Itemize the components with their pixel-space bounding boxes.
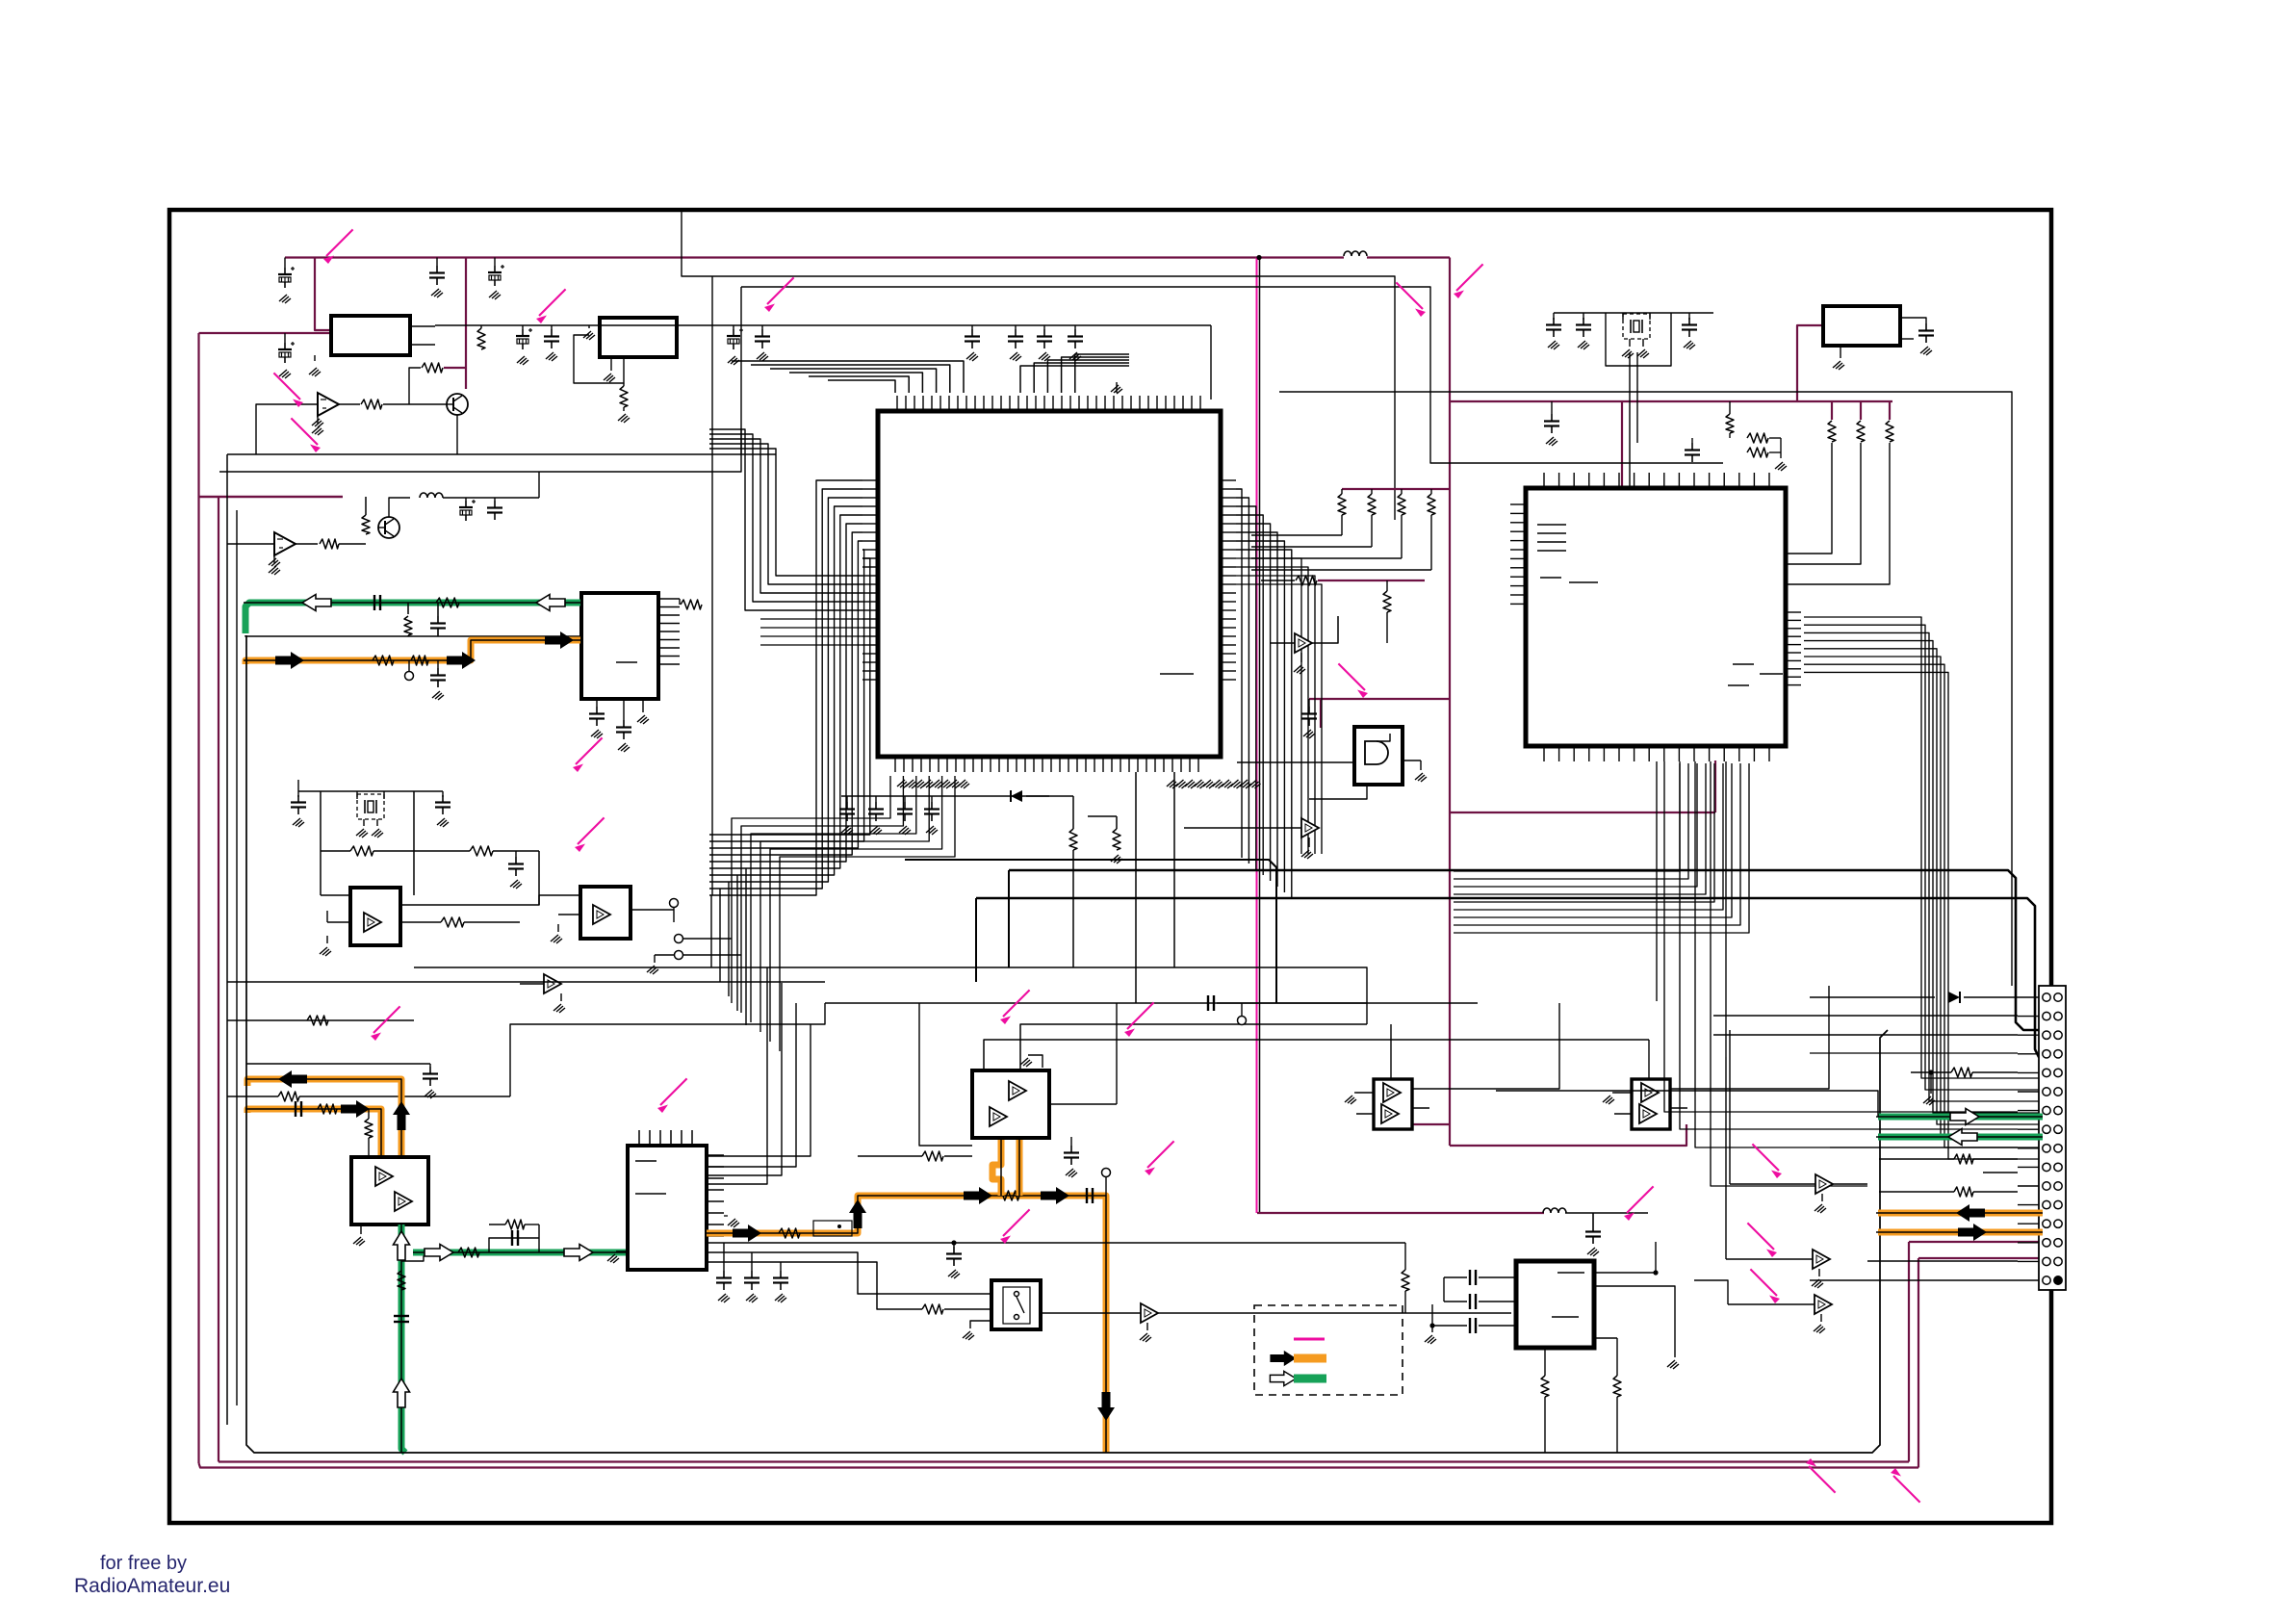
resistor mid2b — [1296, 576, 1317, 585]
relay driver U12 tri2 — [1639, 1104, 1657, 1123]
resistor U6 to opamp — [922, 1151, 943, 1161]
ground B2 — [557, 924, 559, 932]
wire B1 in2 — [327, 921, 350, 923]
wire B2 link — [400, 895, 580, 905]
svg-text:for free by: for free by — [100, 1553, 187, 1574]
wire purple left inner vertical — [218, 497, 219, 1462]
wire purple y516 — [199, 496, 344, 498]
crystal X2 ground — [1629, 339, 1631, 347]
box B feedback — [574, 335, 624, 383]
wire buffer R1 out — [1833, 1183, 1867, 1185]
wire U7 netrt — [1049, 1103, 1117, 1105]
U7 op-amp 2 — [990, 1107, 1007, 1126]
wire resistor to IC2 pin 3 — [1786, 443, 1890, 584]
green conn arrow1 — [1950, 1109, 1979, 1125]
resistor orange m2 — [998, 1191, 1019, 1200]
green up arrow 1 — [394, 1231, 410, 1260]
resistor u1 bot1 — [1069, 829, 1077, 850]
wire U7 box left — [919, 1003, 972, 1146]
wire B1 in — [321, 894, 350, 896]
wire purple and-gate rail — [1309, 698, 1450, 700]
green open arrow 1 — [302, 595, 331, 611]
capacitor xtal left — [291, 795, 306, 814]
wire y407 long — [1279, 392, 2012, 986]
resistor mid2 v — [1383, 591, 1391, 612]
annotation arrow 16 — [1624, 1186, 1654, 1221]
ground rail1 — [279, 295, 291, 303]
box C lower pin — [1900, 338, 1914, 340]
capacitor pcap r3 — [727, 328, 743, 349]
green conn arrow2 — [1948, 1129, 1977, 1146]
wire purple resistor feed 1 — [1831, 401, 1833, 420]
capacitor U7 right — [1064, 1146, 1079, 1165]
U13 dash — [1557, 1272, 1584, 1274]
bus U1 right verticals — [1236, 489, 1242, 858]
signal green mic path — [401, 1224, 405, 1453]
wire purple resistor feed 2 — [1860, 401, 1862, 420]
ground row U1 bottom-right — [1167, 780, 1178, 788]
U3 internal dash — [616, 661, 637, 663]
connector pin filled — [2054, 1276, 2063, 1285]
signal green to U6 — [413, 1250, 629, 1256]
connector J1 body — [2039, 986, 2066, 1290]
capacitor r6 — [1008, 329, 1023, 348]
resistor orange m1 — [779, 1228, 800, 1238]
U1 left lower pin wires — [760, 618, 862, 620]
ground buffer R1 — [1821, 1194, 1823, 1201]
U1 left pins — [862, 479, 878, 481]
IC U13 reg — [1516, 1261, 1594, 1348]
signal green conn2 — [1878, 1134, 2043, 1141]
legend magenta sample — [1294, 1338, 1325, 1341]
IC U1 main processor — [878, 411, 1221, 757]
resistor pull row 3 — [1398, 494, 1405, 515]
wire purple boxC feed — [1797, 325, 1823, 401]
wire diode feed2 — [1964, 996, 2018, 998]
wire X2 rail — [1554, 312, 1713, 314]
resistor conn2 — [1954, 1154, 1973, 1164]
resistor lad2 — [278, 1092, 299, 1101]
capacitor r5 — [965, 329, 980, 348]
ground r4 — [757, 352, 768, 361]
resistor lad1 — [307, 1016, 328, 1025]
wire purple bottom mid — [1257, 1212, 1544, 1214]
annotation arrow 12 — [1145, 1141, 1174, 1175]
ground op-amp A2 — [269, 566, 280, 575]
U1 left harness — [709, 480, 862, 895]
wire vertical x740 — [711, 276, 713, 895]
capacitor xtal right — [435, 795, 450, 814]
ground relay driver U12 — [1603, 1096, 1614, 1104]
annotation arrow 4 — [1454, 264, 1483, 298]
buffer U5 — [544, 974, 561, 993]
annotation arrow 7 — [573, 737, 603, 772]
U4 op-amp 2 — [395, 1192, 412, 1211]
ground row U1 bottom-left — [897, 780, 909, 788]
wire xtal left v — [320, 791, 322, 895]
U6 right harness — [707, 1024, 811, 1156]
wire res mid2 out — [1318, 580, 1425, 581]
resistor rail drop — [477, 328, 485, 349]
U2 internal label dashes — [1537, 524, 1566, 526]
U1 top harness left — [828, 380, 895, 393]
resistor opamp A1 out — [361, 400, 382, 409]
capacitor and-gate area — [1301, 707, 1317, 726]
switch box SW1 — [991, 1280, 1041, 1329]
buffer R3 — [1815, 1295, 1832, 1314]
capacitor U1b3 — [897, 802, 913, 821]
wire mid v1 — [538, 851, 540, 905]
resistor orange2 — [318, 1104, 337, 1114]
wire purple res drop v — [1714, 760, 1716, 812]
signal orange opF — [992, 1137, 1001, 1196]
crystal X1 grounds — [363, 819, 365, 826]
wire U13 bottom — [1544, 1397, 1546, 1453]
crystal X1 — [357, 794, 384, 819]
wire res2 to Q2 — [339, 543, 366, 545]
ground U1 top — [1111, 385, 1122, 394]
orange down arrow m — [1097, 1392, 1115, 1421]
relay driver U11 tri1 — [1383, 1083, 1401, 1102]
switch SW1 internal — [1003, 1287, 1030, 1324]
crystal X2 — [1623, 314, 1650, 339]
op-amp A2 — [274, 532, 296, 555]
regulator box A — [331, 316, 410, 355]
annotation arrow 1 — [323, 229, 353, 264]
box C out wire — [1900, 318, 1926, 323]
wire X2 down — [1629, 352, 1631, 488]
wire purple mid-left — [199, 496, 344, 498]
signal orange out1 — [247, 1079, 401, 1157]
resistor conn — [1951, 1068, 1972, 1077]
wire purple inner to connector — [1909, 1241, 2043, 1243]
wire long y1042 — [825, 1002, 919, 1004]
resistor sw3 — [1402, 1270, 1409, 1291]
annotation arrow 6 — [291, 418, 321, 452]
ground aboveU2 — [1775, 462, 1787, 471]
legend orange sample — [1294, 1354, 1326, 1363]
U1 right lower bundle — [1236, 558, 1301, 854]
wire resistor to IC2 pin 2 — [1786, 443, 1861, 564]
resistor Q2 base pull — [362, 515, 370, 534]
annotation arrow 18 — [1747, 1223, 1777, 1257]
resistor green v — [398, 1271, 405, 1290]
capacitor X2 r — [1682, 318, 1697, 337]
wire rail drop IC1 — [1210, 325, 1212, 400]
annotation arrow 3 — [764, 277, 794, 312]
U1 harness drop to mid — [710, 895, 712, 967]
wire purple bottom inner — [219, 1460, 1909, 1462]
ground boxA left cap — [279, 370, 291, 378]
connector stub wires — [2018, 996, 2039, 998]
resistor opamp A2 out — [320, 539, 339, 549]
ground U5 — [553, 1004, 565, 1013]
capacitor r2 — [544, 329, 559, 348]
ground buffer R2 — [1818, 1269, 1820, 1276]
resistor aboveU2 — [1726, 414, 1734, 433]
resistor box B fb — [620, 386, 628, 407]
wire purple outer to connector — [1918, 1257, 2043, 1259]
wire opamp A1 in — [256, 404, 296, 454]
capacitor X2 l2 — [1576, 318, 1591, 337]
ground and-gate cap — [1303, 730, 1315, 738]
resistor pull row 2 — [1368, 494, 1376, 515]
orange arrow m1 — [733, 1224, 761, 1242]
U2 bottom pins — [1543, 746, 1545, 761]
resistor SW1 — [922, 1304, 943, 1314]
orange conn arrow1 — [1956, 1204, 1985, 1222]
box C ground — [1840, 346, 1841, 358]
wire U7 top1 — [984, 1040, 1136, 1070]
box A right pins — [410, 325, 435, 327]
wire B2 out — [631, 909, 674, 911]
resistor R-pull2 — [1857, 421, 1865, 442]
capacitor U1b4 — [924, 802, 940, 821]
wire U9 net — [1312, 616, 1338, 643]
green cap gap v — [394, 1316, 409, 1322]
wire U7 top2 — [1020, 1024, 1367, 1070]
orange arrow 3 — [545, 632, 574, 649]
capacitor green sub — [430, 616, 446, 635]
AND gate U8 — [1365, 741, 1388, 764]
ground tp — [654, 955, 656, 963]
op-amp box U4 — [351, 1157, 428, 1224]
capacitor U3 bot1 — [596, 699, 598, 707]
wire purple res link — [444, 367, 466, 369]
ground U4 — [360, 1224, 362, 1234]
ground r6 — [1010, 352, 1021, 361]
wire after ind — [443, 497, 539, 499]
capacitor pcap r1 — [516, 328, 532, 349]
capacitor box C out — [1918, 323, 1934, 343]
ground u1 bot2 — [1111, 855, 1122, 864]
wire opamp A2 out — [296, 543, 318, 545]
resistor orange v — [365, 1119, 373, 1138]
capacitor r8 — [1068, 329, 1083, 348]
ground U9 — [1300, 653, 1302, 662]
ground box B fb — [618, 414, 630, 423]
wire y1020 long — [227, 981, 825, 983]
signal green RX path — [245, 603, 580, 633]
U2 right pins — [1786, 611, 1801, 613]
wire purple vertical mid — [1449, 258, 1451, 1147]
wire conn r3 — [1713, 1034, 2018, 1036]
wire purple rail 417 — [1450, 400, 1892, 402]
ground relay driver U11 — [1345, 1096, 1356, 1104]
wire buffer R2 net — [1725, 1057, 1727, 1259]
wire SW1 left1 — [707, 1252, 991, 1294]
legend green sample — [1294, 1375, 1326, 1383]
wire X2 frame — [1606, 313, 1671, 366]
wire vertical x1307 black — [1259, 258, 1261, 1214]
op-amp A1 — [318, 393, 339, 416]
ground B1 — [326, 936, 328, 943]
wire res row links — [1251, 534, 1342, 536]
transistor Q1 — [447, 394, 468, 415]
annotation arrow corner1 — [1806, 1458, 1836, 1493]
U6 internal dash — [635, 1160, 656, 1162]
AND gate box U8 — [1354, 727, 1403, 785]
inductor Q2 out — [420, 493, 443, 498]
svg-text:RadioAmateur.eu: RadioAmateur.eu — [74, 1575, 230, 1597]
wire long y472 — [227, 453, 776, 455]
testpoint below orange — [408, 660, 410, 671]
green open arrow 2 — [536, 595, 565, 611]
diode D1 u1 bottom — [1011, 790, 1022, 802]
relay driver U12 pins — [1614, 1092, 1632, 1094]
wire purple driver1 link — [1408, 1123, 1450, 1125]
signal orange out2 — [247, 1109, 381, 1157]
U1 left harness upper — [709, 449, 862, 576]
legend green arrow — [1270, 1371, 1296, 1385]
wire purple into box A — [199, 332, 332, 334]
ground U3 bot3 — [642, 699, 644, 712]
wire left net3 — [227, 1096, 278, 1097]
ground boxB in — [583, 331, 595, 340]
ground r5 — [966, 352, 978, 361]
buffer B1 triangle — [364, 913, 381, 932]
wire green sub bus — [245, 635, 501, 636]
buffer B2 triangle — [593, 905, 610, 924]
wire SW1 left2 — [944, 1308, 991, 1310]
connector J1 pins — [2043, 993, 2050, 1001]
wire purple right inner rise — [1908, 1242, 1910, 1462]
testpoint orange — [1102, 1169, 1111, 1177]
signal green conn1 — [1878, 1114, 2043, 1121]
annotation arrow 11 — [1124, 1002, 1154, 1037]
capacitor below orange — [437, 660, 439, 668]
wire conn r2 — [1713, 1015, 2018, 1017]
wire U13 caps left — [1443, 1277, 1445, 1302]
resistor fb — [422, 363, 443, 373]
U7 op-amp 1 — [1009, 1081, 1026, 1100]
wire U13 top right — [1594, 1286, 1675, 1357]
wire vertical x1307 magenta — [1256, 258, 1258, 1214]
annotation arrow 2 — [536, 289, 566, 323]
ground rail3 — [489, 291, 501, 299]
wire U13 right1 — [1594, 1242, 1656, 1273]
wire main 5V rail — [435, 324, 1211, 326]
resistor on orange 1 — [373, 656, 394, 665]
wire purple left outer vertical — [197, 333, 199, 1463]
orange arrow m3 — [1041, 1187, 1069, 1204]
ground box A — [309, 368, 321, 376]
wire left net2 — [246, 1063, 404, 1065]
IC U2 controller — [1526, 488, 1786, 746]
buffer R2 — [1813, 1250, 1830, 1269]
box B ground lead — [610, 357, 612, 371]
wire u1 bottom bus down2 — [1173, 772, 1175, 967]
resistor aboveU2 h1 — [1747, 433, 1768, 443]
inductor on bottom mid wire — [1543, 1208, 1566, 1213]
capacitor green par — [512, 1230, 518, 1246]
wire y1005 long — [414, 967, 1367, 1024]
bus U2 bottom verticals — [1664, 761, 2018, 1112]
U1 internal dash — [1160, 673, 1194, 675]
orange arrow 2 — [447, 652, 476, 669]
wire green bus to U3 — [501, 635, 581, 637]
resistor U13 b1 — [1541, 1376, 1549, 1397]
wire SW1 right — [1041, 1312, 1511, 1314]
annotation arrow 9 — [1338, 663, 1368, 698]
U1 bottom pins — [894, 757, 896, 772]
wire conn green feeds — [1496, 1091, 1878, 1117]
legend orange arrow — [1270, 1351, 1296, 1366]
U1 top pins — [896, 396, 898, 411]
bus heavy left drop — [1008, 870, 1010, 967]
wire left black v236 — [226, 454, 228, 1425]
capacitor pcap boxA left — [278, 342, 295, 363]
wire U8 bottom — [1309, 785, 1367, 799]
annotation arrow corner2 — [1891, 1468, 1920, 1503]
wire green parallel — [489, 1238, 539, 1252]
wire purple bottom outer — [199, 1463, 1919, 1468]
wire u1 bottom bus down — [1135, 772, 1137, 1003]
ground buffer R3 — [1820, 1314, 1822, 1322]
ground SW buf — [1146, 1323, 1148, 1330]
wire buffer R3 net — [1694, 1280, 1728, 1304]
ground U13 capleft — [1431, 1326, 1433, 1332]
wire res mid2 — [1261, 580, 1295, 581]
wire A2 input net — [227, 543, 253, 545]
U6 right pins — [707, 1154, 724, 1156]
capacitor r4 — [755, 329, 770, 348]
bus heavy line 1 — [1009, 870, 2043, 1030]
annotation arrow 10 — [1000, 990, 1030, 1024]
wire bottom return — [246, 635, 1888, 1453]
orange arrow m2 — [964, 1187, 992, 1204]
resistor on orange 2 — [411, 656, 428, 665]
resistor mid2 — [470, 846, 493, 856]
wire purple transistor drop — [465, 258, 467, 390]
U6 bottom caps — [716, 1271, 732, 1290]
signal orange opF2 — [1017, 1137, 1023, 1196]
orange arrow 1 — [275, 652, 304, 669]
annotation arrow 5 — [273, 373, 303, 407]
resistor U13 b2 — [1613, 1376, 1621, 1397]
wire purple ic2 right drop — [1450, 812, 1715, 813]
U1 top harness right — [1020, 366, 1129, 393]
capacitor mid2 — [508, 857, 524, 876]
U2 left pins — [1510, 503, 1526, 505]
ground conn — [1930, 1072, 1932, 1094]
regulator box C — [1823, 306, 1900, 346]
wire net sw2 — [707, 1242, 1405, 1244]
testpoint F — [1238, 1017, 1247, 1025]
IC U6 audio — [628, 1146, 707, 1270]
wire purple right outer rise — [1918, 1258, 1919, 1468]
wire diode net — [1026, 795, 1073, 797]
resistor pull row 1 — [1338, 494, 1346, 515]
U6 top pins — [638, 1130, 640, 1146]
ground U7 left — [1028, 1055, 1043, 1068]
wire U10 in — [1184, 827, 1276, 829]
transistor Q2 — [378, 517, 399, 538]
wire buffer R1 net — [1729, 1030, 1731, 1184]
annotation arrow 13 — [1000, 1209, 1030, 1244]
U2 top pins — [1543, 473, 1545, 488]
capacitor r7 — [1037, 329, 1052, 348]
buffer box B2 — [580, 887, 631, 939]
resistor green sub — [404, 616, 412, 635]
resistor u1 bot2 — [1113, 829, 1120, 850]
capacitor X2 l1 — [1546, 318, 1561, 337]
op-amp box U7 — [972, 1070, 1049, 1138]
legend dashed box — [1254, 1305, 1403, 1395]
relay driver U12 — [1632, 1079, 1670, 1129]
orange arrow right2 — [341, 1100, 370, 1118]
wire Q2 node right — [538, 472, 540, 498]
